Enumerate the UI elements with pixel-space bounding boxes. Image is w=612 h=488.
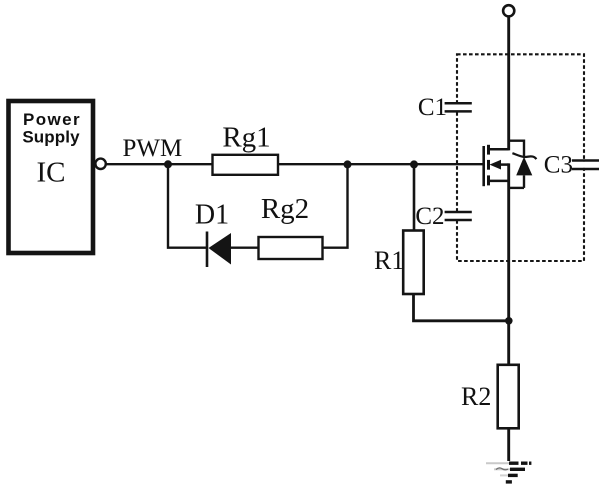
capacitor C1 (444, 103, 473, 111)
wire node C down to R1 (413, 164, 416, 231)
svg-text:D1: D1 (195, 200, 229, 231)
node D junction (505, 317, 513, 325)
node B junction (344, 160, 352, 168)
wire node C to MOSFET gate (414, 163, 484, 165)
svg-text:R2: R2 (461, 382, 491, 411)
wire IC pin to PWM node (106, 163, 168, 165)
wire Rg1 to node B (278, 163, 348, 165)
MOSFET Q1 (484, 145, 509, 186)
resistor Rg1 (213, 155, 279, 175)
node C junction (410, 160, 418, 168)
wire R2 to ground (507, 428, 510, 461)
power supply IC U1 (9, 101, 94, 253)
svg-text:Rg2: Rg2 (261, 193, 309, 225)
resistor R1 (403, 231, 424, 295)
drain terminal (503, 5, 514, 16)
wire PWM node down to D1 cathode (168, 164, 207, 248)
wire D1 anode to Rg2 (231, 246, 258, 248)
ground (486, 463, 531, 482)
body arrow (490, 160, 502, 170)
svg-text:R1: R1 (374, 246, 404, 275)
drain stub (489, 148, 509, 151)
MOSFET body diode (509, 140, 537, 188)
capacitor C3 (572, 161, 600, 170)
svg-text:IC: IC (37, 157, 66, 189)
svg-text:C1: C1 (418, 94, 447, 121)
wire terminal down to MOSFET drain (507, 17, 510, 151)
resistor R2 (498, 365, 519, 429)
channel segment body (487, 160, 490, 170)
wire R1 bottom to source node D (414, 294, 510, 321)
svg-text:PWM: PWM (123, 135, 183, 162)
svg-text:Rg1: Rg1 (222, 122, 270, 154)
source stub (489, 180, 509, 183)
channel segment drain side (487, 145, 490, 155)
wire node B to node C (348, 163, 415, 165)
capacitor C2 (444, 212, 473, 220)
output terminal pin of IC (95, 159, 105, 169)
channel segment source side (487, 175, 490, 185)
svg-text:C2: C2 (415, 203, 444, 230)
MOSFET package dashed boundary (457, 54, 584, 261)
body stub (500, 163, 509, 166)
resistor Rg2 (259, 237, 323, 259)
wire Rg2 to node B (323, 164, 348, 248)
svg-text:Power: Power (23, 110, 81, 129)
wire MOSFET source down through node D to R2 (507, 163, 510, 365)
diode D1 (207, 232, 231, 268)
svg-text:C3: C3 (544, 152, 573, 179)
svg-text:Supply: Supply (22, 128, 80, 147)
wire PWM node to Rg1 (168, 163, 213, 165)
node PWM junction (164, 160, 172, 168)
gate bar (482, 146, 485, 186)
